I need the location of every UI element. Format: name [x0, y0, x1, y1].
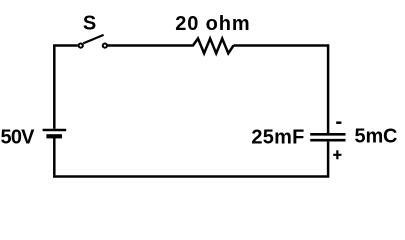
- svg-text:20 ohm: 20 ohm: [175, 13, 250, 35]
- switch S left terminal circle: [79, 44, 83, 48]
- svg-text:S: S: [83, 12, 96, 34]
- capacitor C1 top plate: [310, 133, 345, 136]
- svg-text:5mC: 5mC: [355, 125, 398, 147]
- label 25mF capacitance value: [251, 126, 304, 148]
- switch S right terminal circle: [103, 44, 107, 48]
- label S switch name: [83, 12, 96, 34]
- wire top-left segment with left corner: [54, 46, 77, 129]
- capacitor C1 bottom plate: [310, 139, 345, 142]
- resistor R1 20 ohm zigzag with wire from switch: [108, 39, 234, 54]
- svg-text:50V: 50V: [1, 126, 36, 148]
- capacitor positive polarity mark: [333, 150, 341, 159]
- battery V1 long positive plate: [43, 129, 67, 132]
- wire right segment with top-right corner: [233, 46, 328, 134]
- svg-text:25mF: 25mF: [251, 126, 304, 148]
- label 20 ohm resistance value: [175, 13, 250, 35]
- label 5mC charge value: [355, 125, 398, 147]
- label 50V battery value: [1, 126, 36, 148]
- battery V1 short negative plate: [46, 134, 62, 138]
- switch S open lever arm: [83, 35, 103, 44]
- wire left-bottom-right segment with bottom corners: [54, 137, 328, 177]
- capacitor negative polarity mark: [336, 121, 341, 124]
